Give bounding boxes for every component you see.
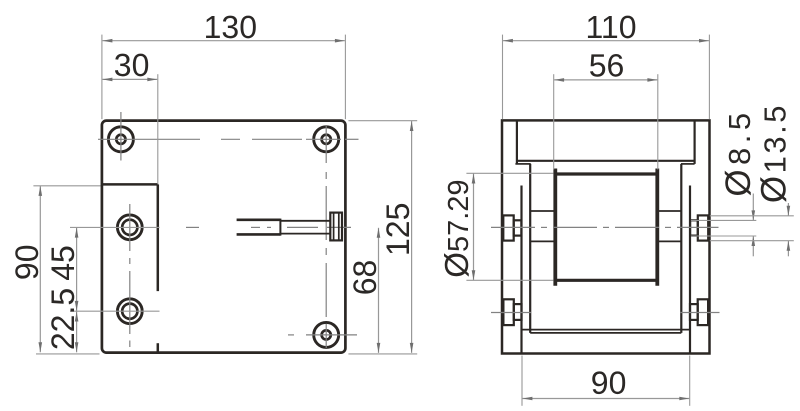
extension line roller top for diameter 57.29 [466,172,553,174]
svg-text:90: 90 [9,245,45,281]
extension line lower middle hole for 22.5 [70,310,160,312]
extension line right view right top [708,35,710,120]
step under right ear [681,163,695,165]
extension line roller left for 56 [553,74,555,169]
left side plate inner line [529,164,531,333]
axle shank bottom edge [280,233,330,235]
extension line diameter 8.5 top [691,219,756,221]
lower bolt block left outer [503,299,513,325]
centerline through top holes [98,138,359,140]
outer body outline [502,120,710,353]
dimension line 125 [410,121,414,353]
extension line 90 bottom right [689,356,691,406]
axle fork slot bottom edge [237,233,281,236]
axle fork end line [279,219,281,236]
centerline through right holes [325,126,327,348]
dimension text 56 [589,47,625,83]
roller left edge [553,169,557,286]
extension line diameter 8.5 bottom [691,235,756,237]
bottom-right hole horizontal crosshair [288,334,357,336]
axle head inner right line [338,213,340,241]
svg-text:56: 56 [589,47,625,83]
axle fork slot top edge [237,219,281,222]
axle centerline left view [186,226,351,228]
dimension text 110 [585,9,636,45]
bracket vertical edge upper segment [157,184,160,291]
step under left ear [515,163,530,165]
dimension text 90 bottom [591,365,627,401]
extension line plate top right for 125 [348,120,417,122]
hub top line right [657,210,681,212]
dimension text 90 left [9,245,45,281]
left side plate outer line [520,186,522,354]
hole middle upper [117,215,142,240]
extension line left edge top [101,35,103,120]
extension line upper middle hole for 45 [70,226,160,228]
top plate bottom edge [517,160,695,162]
extension line 90 bottom left [521,356,523,406]
dimension text 30 [114,47,150,83]
axle head inner left line [333,213,335,241]
dimension line 110 [503,39,709,43]
bottom plate second edge [530,332,681,334]
hole middle lower [117,299,142,324]
axle centerline right view [491,226,719,228]
svg-text:110: 110 [585,9,636,45]
extension line bracket edge [157,74,159,184]
dimension line diameter 57.29 [472,174,476,281]
hole top-left counterbored [108,127,133,152]
hole top-left vertical crosshair [120,112,122,161]
svg-text:Ø13.5: Ø13.5 [754,103,793,203]
bracket vertical edge lower segment [157,343,160,352]
lower bolt block left inner [514,304,522,320]
svg-text:130: 130 [204,9,257,45]
top plate inner right edge [693,120,695,163]
lower bolt block right outer [698,299,708,325]
svg-text:22.5: 22.5 [45,288,81,350]
roller top edge [555,172,657,175]
right side plate inner line [680,164,682,333]
top plate inner left edge [516,120,518,163]
lower bolt centerline left segment [491,312,531,314]
dimension text 125 [380,203,416,256]
dimension line 90 left [39,186,43,352]
lower bolt block right inner [690,304,698,320]
dimension line 68 [377,228,381,353]
extension line roller bottom for diameter 57.29 [466,279,553,281]
svg-text:45: 45 [45,245,81,281]
step edge of bracket [102,183,158,186]
dimension line 30 [102,78,157,82]
axle head rectangle [330,213,342,241]
plate outline [102,121,346,353]
dimension line 90 bottom [522,397,689,401]
hub top line left [530,210,555,212]
hub bottom line right [657,240,681,242]
hole top-right counterbored [314,127,339,152]
extension line plate bottom right shared [348,353,417,355]
hole bottom-right counterbored [314,322,339,347]
svg-text:30: 30 [114,47,150,83]
extension line bottom left for 90 [36,353,100,355]
lower bolt centerline right segment [681,312,720,314]
dimension text 45 [45,245,81,281]
upper axle block right inner [690,220,698,235]
extension line diameter 13.5 bottom [710,240,794,242]
extension line step for 90 [33,185,100,187]
bottom plate top edge [522,329,691,331]
roller bottom edge [555,279,657,282]
dimension text 22.5 [45,288,81,350]
dimension text diameter 8.5 [719,108,758,196]
svg-text:125: 125 [380,203,416,256]
dimension text diameter 13.5 [754,103,793,203]
extension line right view left top [502,35,504,120]
dimension text 68 [347,260,383,296]
hub bottom line left [530,240,555,242]
dimension line diameter 13.5 [787,203,791,256]
dimension line diameter 8.5 [752,194,756,257]
dimension text diameter 57.29 [438,179,475,277]
axle shank top edge [280,220,330,222]
svg-text:90: 90 [591,365,627,401]
upper axle block right outer [698,215,708,240]
centerline through middle holes [129,204,131,347]
dimension line 22.5 [75,312,79,353]
dimension line 45 [75,228,79,311]
extension line diameter 13.5 top [710,215,794,217]
upper axle block left outer [503,215,513,240]
dimension line 56 [554,78,657,82]
svg-text:Ø8.5: Ø8.5 [719,108,758,196]
svg-text:68: 68 [347,260,383,296]
roller right edge [655,169,659,286]
right side plate outer line [689,186,691,354]
upper axle block left inner [514,220,522,235]
dimension text 130 [204,9,257,45]
extension line roller right for 56 [657,74,659,169]
svg-text:Ø57.29: Ø57.29 [438,179,475,277]
extension line right edge top [344,35,346,120]
dimension line 130 [102,39,345,43]
